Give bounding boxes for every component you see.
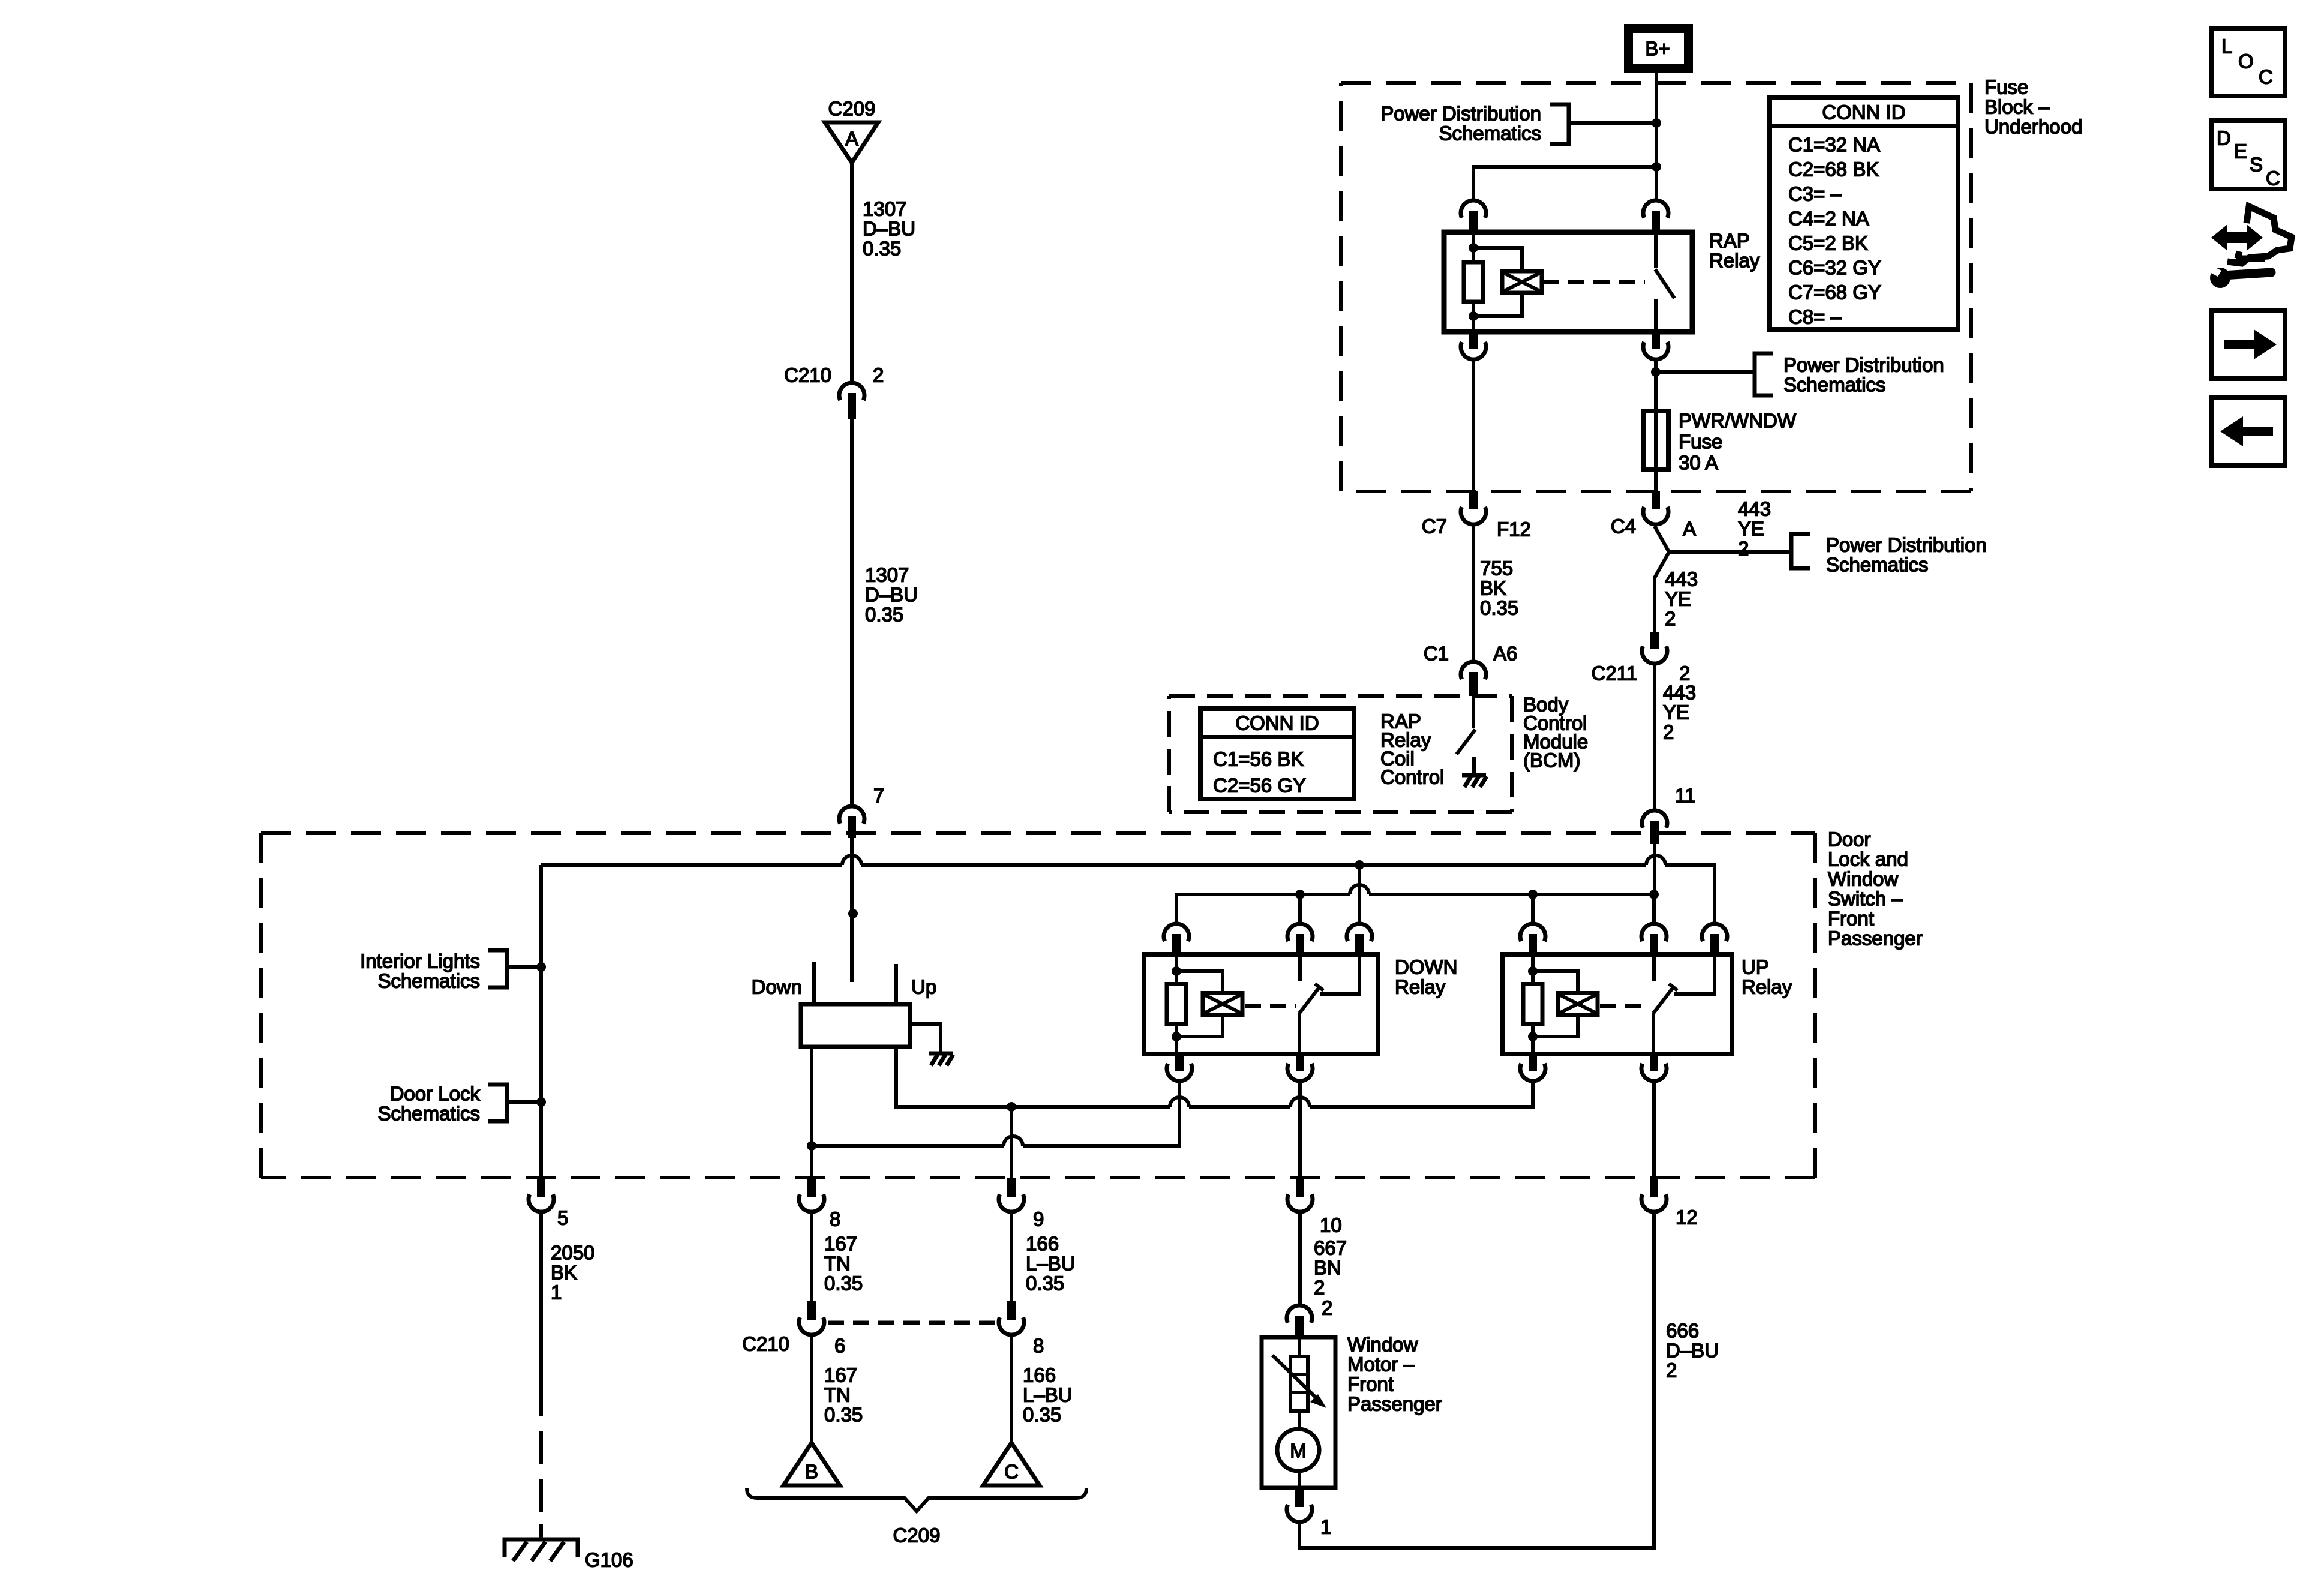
wire motor return to UP relay: [1299, 1214, 1654, 1548]
ground inside BCM: [1462, 757, 1487, 787]
connector pin 10: [1287, 1178, 1313, 1212]
svg-text:D–BU: D–BU: [865, 584, 918, 606]
svg-text:A: A: [1683, 518, 1696, 540]
svg-text:Lock and: Lock and: [1828, 848, 1908, 870]
junction node to power distribution: [1651, 367, 1661, 377]
svg-text:0.35: 0.35: [1480, 597, 1518, 619]
connector pin into RAP relay switch: [1643, 200, 1668, 233]
DOWN relay common top pin: [1287, 924, 1313, 957]
svg-text:Down: Down: [752, 976, 802, 998]
DOWN relay switch: [1299, 957, 1359, 1054]
svg-text:0.35: 0.35: [824, 1404, 863, 1426]
junction sub-bus to DOWN relay common: [1295, 890, 1305, 899]
label Window Motor Front Passenger: [1347, 1334, 1442, 1415]
wire C4 branch to power distribution: [1655, 526, 1791, 552]
svg-text:Window: Window: [1347, 1334, 1418, 1356]
svg-text:C210: C210: [784, 364, 831, 386]
CONN ID table (BCM): [1200, 709, 1354, 799]
svg-text:1: 1: [1320, 1516, 1331, 1538]
svg-text:D–BU: D–BU: [863, 218, 915, 240]
svg-text:Relay: Relay: [1742, 976, 1792, 998]
ground tab of rocker switch: [910, 1024, 953, 1065]
connector C210 pin 8: [999, 1301, 1024, 1335]
connector C7 pin F12: [1461, 491, 1486, 524]
bracket to Power Distribution Schematics (top): [1550, 104, 1656, 144]
connector C211 pin 2: [1642, 632, 1667, 664]
wire label 2050 BK 1: [551, 1242, 594, 1304]
svg-text:L–BU: L–BU: [1023, 1384, 1073, 1406]
wire sub-bus to DOWN relay common pin: [1298, 894, 1302, 922]
svg-text:Block –: Block –: [1984, 96, 2050, 118]
bracket to Interior Lights Schematics: [488, 950, 541, 987]
svg-text:BK: BK: [551, 1262, 577, 1284]
svg-text:5: 5: [557, 1207, 568, 1229]
svg-text:10: 10: [1320, 1214, 1342, 1236]
connector pin out of RAP switch: [1643, 331, 1668, 359]
svg-text:C2=68 BK: C2=68 BK: [1788, 158, 1879, 181]
svg-text:166: 166: [1023, 1364, 1056, 1386]
svg-text:Fuse: Fuse: [1984, 76, 2028, 98]
bracket to Door Lock Schematics: [488, 1085, 541, 1121]
wire pin 5 to ground (dashed): [539, 1214, 543, 1524]
svg-text:2: 2: [1314, 1277, 1325, 1299]
svg-text:755: 755: [1480, 557, 1513, 580]
svg-text:Schematics: Schematics: [1439, 122, 1541, 145]
wire label 443 YE 2 (upper): [1738, 498, 1771, 560]
splice node on pin 7 wire: [848, 909, 858, 918]
power terminal B+: [1629, 29, 1689, 69]
svg-text:YE: YE: [1663, 701, 1689, 724]
wire B+ feed down: [1655, 123, 1658, 167]
brace C209: [747, 1488, 1086, 1547]
svg-text:BN: BN: [1314, 1257, 1341, 1279]
svg-text:C4=2 NA: C4=2 NA: [1788, 208, 1869, 230]
svg-text:8: 8: [830, 1208, 840, 1230]
svg-text:TN: TN: [824, 1253, 851, 1275]
svg-text:Interior Lights: Interior Lights: [360, 950, 480, 972]
DOWN relay box: [1144, 954, 1378, 1054]
svg-text:CONN ID: CONN ID: [1822, 101, 1905, 124]
wire label 167 TN 0.35 (lower): [824, 1364, 863, 1426]
svg-text:443: 443: [1663, 682, 1696, 704]
BCM driver switch (RAP relay coil control): [1457, 696, 1475, 754]
icon DESC box: [2211, 121, 2285, 190]
svg-text:Front: Front: [1828, 908, 1874, 930]
junction Down leg to DOWN relay coil: [807, 1141, 816, 1151]
connector pin 1 motor return: [1287, 1488, 1312, 1522]
bracket to Power Distribution Schematics (mid): [1656, 353, 1773, 395]
svg-text:C5=2 BK: C5=2 BK: [1788, 232, 1868, 254]
label Power Distribution Schematics (mid): [1783, 354, 1944, 396]
svg-text:12: 12: [1676, 1206, 1698, 1229]
svg-text:Fuse: Fuse: [1679, 431, 1722, 453]
svg-text:C1=56 BK: C1=56 BK: [1213, 748, 1304, 770]
label RAP Relay: [1709, 230, 1760, 272]
connector C1 pin A6: [1461, 662, 1486, 696]
wire pin 9 to C210: [1010, 1214, 1013, 1301]
svg-text:S: S: [2250, 154, 2263, 176]
svg-text:F12: F12: [1497, 518, 1531, 541]
icon back arrow: [2211, 397, 2285, 466]
svg-text:D–BU: D–BU: [1666, 1340, 1719, 1362]
DOWN relay coil top pin: [1164, 924, 1189, 957]
wire pin 10 to motor connector: [1298, 1214, 1302, 1304]
svg-text:RAP: RAP: [1709, 230, 1750, 252]
RAP relay box: [1444, 232, 1692, 332]
wire pin 11 into switch: [1653, 844, 1656, 894]
svg-text:Switch –: Switch –: [1828, 888, 1903, 910]
svg-text:Schematics: Schematics: [1826, 554, 1929, 576]
svg-text:C4: C4: [1611, 515, 1636, 538]
wire label 755 BK 0.35: [1480, 557, 1518, 619]
label UP Relay: [1742, 956, 1792, 998]
svg-text:C6=32 GY: C6=32 GY: [1788, 257, 1881, 279]
connector pin 11 door switch: [1642, 810, 1667, 844]
label Door Lock and Window Switch Front Passenger: [1828, 828, 1923, 950]
svg-text:Window: Window: [1828, 868, 1899, 890]
svg-text:9: 9: [1033, 1208, 1044, 1230]
wire label 167 TN 0.35 (upper): [824, 1233, 863, 1295]
RAP relay switch: [1655, 232, 1674, 332]
breaker arrow: [1272, 1355, 1326, 1408]
wire label 166 L-BU 0.35 (lower): [1023, 1364, 1073, 1426]
label Power Distribution Schematics (right): [1826, 534, 1987, 576]
label DOWN Relay: [1395, 956, 1457, 998]
icon schematic navigation glyph: [2206, 206, 2292, 288]
wire branch left to RAP relay coil: [1473, 167, 1656, 199]
UP relay box: [1502, 954, 1732, 1054]
svg-text:6: 6: [834, 1335, 845, 1357]
left feed wire inside switch: [539, 865, 543, 1178]
svg-text:0.35: 0.35: [1023, 1404, 1061, 1426]
icon forward arrow: [2211, 311, 2285, 379]
UP relay common top pin: [1641, 924, 1667, 957]
svg-text:G106: G106: [585, 1549, 633, 1571]
svg-text:Power Distribution: Power Distribution: [1380, 103, 1541, 125]
svg-text:UP: UP: [1742, 956, 1769, 978]
wire C211 to door switch: [1653, 665, 1656, 809]
wire RAP coil output down to C7: [1472, 359, 1475, 491]
wire DOWN relay coil return: [812, 1083, 1179, 1146]
connector C210 pin 6: [799, 1301, 824, 1335]
svg-text:Up: Up: [911, 976, 936, 998]
svg-text:Power Distribution: Power Distribution: [1826, 534, 1987, 556]
connector pin into RAP relay coil (fuse block cavity): [1461, 200, 1486, 233]
connector pin 8: [799, 1178, 824, 1212]
svg-text:Schematics: Schematics: [377, 970, 480, 992]
svg-text:Motor –: Motor –: [1347, 1353, 1415, 1376]
svg-text:B: B: [805, 1461, 818, 1483]
svg-text:O: O: [2238, 50, 2254, 73]
label PWR/WNDW Fuse 30 A: [1679, 410, 1797, 474]
svg-text:166: 166: [1026, 1233, 1059, 1255]
connector pin 12: [1641, 1178, 1667, 1212]
svg-text:2: 2: [1665, 608, 1676, 630]
junction sub-bus to UP relay coil: [1528, 890, 1538, 899]
svg-text:C209: C209: [893, 1524, 941, 1547]
svg-text:YE: YE: [1738, 518, 1764, 540]
label Body Control Module (BCM): [1523, 694, 1588, 772]
connector pin 7 door switch: [839, 806, 864, 838]
svg-text:Schematics: Schematics: [377, 1103, 480, 1125]
svg-text:167: 167: [824, 1233, 857, 1255]
wire RAP switch output down: [1654, 359, 1658, 372]
svg-text:E: E: [2234, 140, 2247, 163]
wire label 1307 D-BU 0.35 (upper): [863, 198, 915, 260]
motor circuit breaker: [1290, 1337, 1308, 1411]
svg-text:C210: C210: [742, 1333, 789, 1355]
svg-text:2050: 2050: [551, 1242, 594, 1264]
UP relay coil top pin: [1520, 924, 1545, 957]
wire label 443 YE 2 (mid): [1665, 568, 1698, 630]
label Power Distribution Schematics (top): [1380, 103, 1541, 145]
svg-text:1: 1: [551, 1281, 562, 1304]
svg-text:C2=56 GY: C2=56 GY: [1213, 775, 1306, 797]
door lock and window switch dashed box: [261, 831, 1815, 835]
svg-text:BK: BK: [1480, 577, 1506, 599]
svg-text:Relay: Relay: [1709, 250, 1760, 272]
coil sub-bus wire: [1176, 885, 1654, 922]
svg-text:M: M: [1290, 1440, 1307, 1462]
svg-text:C3= –: C3= –: [1788, 183, 1842, 205]
wire pin 8 to C210: [810, 1214, 813, 1301]
feed bus wire inside switch: [541, 855, 1715, 922]
fuse block dashed box: [1341, 81, 1971, 85]
svg-text:1307: 1307: [865, 564, 909, 586]
wire Down leg: [810, 1047, 813, 1178]
connector triangle C: [983, 1443, 1040, 1485]
DOWN relay coil with parallel resistor: [1167, 957, 1242, 1054]
svg-text:C209: C209: [828, 98, 876, 120]
DOWN relay output bottom pin: [1287, 1054, 1313, 1081]
connector pin 9: [999, 1178, 1024, 1212]
wire bus to DOWN relay contact pin: [1358, 865, 1361, 922]
svg-text:Relay: Relay: [1395, 976, 1446, 998]
junction sub-bus to UP relay common: [1649, 890, 1659, 899]
svg-text:A: A: [845, 128, 858, 150]
icon LOC box: [2211, 28, 2285, 96]
UP relay coil-to-switch dashed link: [1600, 1004, 1650, 1008]
wire C4 down to C211: [1655, 552, 1669, 632]
svg-text:C7=68 GY: C7=68 GY: [1788, 281, 1881, 304]
wire Up leg to relay line: [896, 1047, 1533, 1107]
UP relay output bottom pin: [1641, 1054, 1667, 1081]
wire C210-8 to triangle C: [1010, 1337, 1013, 1444]
svg-text:Power Distribution: Power Distribution: [1783, 354, 1944, 376]
svg-text:C1=32 NA: C1=32 NA: [1788, 134, 1880, 156]
svg-text:(BCM): (BCM): [1523, 749, 1580, 772]
window motor box: [1262, 1337, 1335, 1488]
junction node on B+ feed at bracket: [1652, 118, 1661, 128]
connector C4 pin A: [1643, 491, 1668, 524]
wire C210 to door switch: [850, 419, 854, 804]
wire label 1307 D-BU 0.35 (lower): [865, 564, 918, 626]
svg-text:Schematics: Schematics: [1783, 374, 1886, 396]
UP relay contact top pin: [1702, 924, 1727, 957]
junction bus to DOWN relay: [1355, 860, 1364, 870]
svg-text:DOWN: DOWN: [1395, 956, 1457, 978]
svg-text:Passenger: Passenger: [1347, 1393, 1442, 1415]
svg-text:Door Lock: Door Lock: [390, 1083, 481, 1105]
UP relay switch: [1653, 957, 1715, 1054]
body control module dashed box: [1169, 694, 1512, 698]
svg-text:CONN ID: CONN ID: [1235, 712, 1319, 734]
svg-text:2: 2: [1322, 1297, 1332, 1319]
svg-text:L: L: [2221, 35, 2232, 58]
svg-text:B+: B+: [1645, 38, 1670, 60]
bracket to Power Distribution Schematics (right): [1791, 534, 1810, 568]
label RAP Relay Coil Control: [1380, 710, 1444, 788]
svg-text:Passenger: Passenger: [1828, 927, 1923, 950]
svg-text:C: C: [2266, 167, 2280, 190]
svg-text:Control: Control: [1380, 766, 1444, 788]
RAP relay coil with parallel resistor: [1464, 233, 1542, 332]
DOWN relay contact top pin: [1347, 924, 1372, 957]
svg-text:C: C: [2259, 66, 2273, 88]
svg-text:167: 167: [824, 1364, 857, 1386]
connector triangle B: [783, 1443, 840, 1485]
svg-text:C: C: [1004, 1461, 1019, 1483]
wire B+ to fuse block: [1655, 73, 1658, 123]
connector pin 5: [529, 1178, 554, 1212]
svg-text:2: 2: [1666, 1359, 1677, 1382]
wire down to RAP relay switch: [1655, 167, 1658, 199]
wire label 667 BN 2: [1314, 1237, 1347, 1299]
wire label 666 D-BU 2: [1666, 1320, 1719, 1382]
ground G106: [505, 1524, 578, 1561]
svg-text:0.35: 0.35: [865, 604, 903, 626]
label Fuse Block Underhood: [1984, 76, 2082, 138]
DOWN relay coil-to-switch dashed link: [1245, 1004, 1296, 1008]
RAP relay coil-to-switch dashed link: [1543, 280, 1645, 284]
label Door Lock Schematics: [377, 1083, 480, 1125]
svg-text:C211: C211: [1592, 662, 1637, 685]
connector pin 2 window motor: [1287, 1305, 1312, 1337]
UP relay coil bottom pin: [1520, 1054, 1545, 1081]
connector triangle A (C209): [825, 122, 878, 163]
svg-text:1307: 1307: [863, 198, 906, 220]
svg-text:443: 443: [1665, 568, 1698, 590]
CONN ID table (fuse block): [1770, 98, 1958, 329]
svg-text:D: D: [2217, 127, 2231, 149]
svg-text:11: 11: [1675, 785, 1695, 807]
svg-text:0.35: 0.35: [824, 1272, 863, 1295]
wire UP relay output to pin 12: [1652, 1083, 1656, 1178]
junction Up line to pin 9: [1007, 1102, 1016, 1112]
wire sub-bus to UP relay coil pin: [1531, 894, 1535, 922]
junction to door lock: [536, 1097, 546, 1107]
dashed connector link C210: [828, 1321, 996, 1325]
wire pin 7 into switch: [850, 838, 854, 914]
svg-text:TN: TN: [824, 1384, 851, 1406]
label Interior Lights Schematics: [360, 950, 480, 992]
DOWN relay coil bottom pin: [1167, 1054, 1192, 1081]
svg-text:443: 443: [1738, 498, 1771, 520]
svg-text:7: 7: [873, 785, 884, 807]
svg-text:2: 2: [873, 364, 884, 386]
svg-text:0.35: 0.35: [1026, 1272, 1064, 1295]
wire C7 to BCM: [1472, 526, 1475, 660]
wire sub-bus to UP relay common pin: [1652, 894, 1656, 922]
fuse PWR/WNDW 30A: [1643, 372, 1668, 491]
wire DOWN relay output to pin 10: [1298, 1083, 1302, 1178]
svg-text:2: 2: [1663, 721, 1674, 743]
wire label 443 YE 2 (lower): [1663, 682, 1696, 743]
svg-text:666: 666: [1666, 1320, 1699, 1342]
wire pin 9 drop: [1010, 1107, 1013, 1178]
junction to interior lights: [536, 962, 546, 972]
junction node branch to RAP coil: [1652, 162, 1661, 172]
svg-text:C1: C1: [1424, 643, 1449, 665]
wire splice to switch common: [850, 914, 854, 982]
wire A to C210: [850, 163, 854, 381]
connector pin out of RAP coil: [1461, 331, 1486, 359]
svg-text:8: 8: [1033, 1335, 1044, 1357]
svg-text:Door: Door: [1828, 828, 1871, 851]
svg-text:PWR/WNDW: PWR/WNDW: [1679, 410, 1797, 432]
UP relay coil with parallel resistor: [1523, 957, 1598, 1054]
window rocker switch: [801, 962, 910, 1047]
wire label 166 L-BU 0.35 (upper): [1026, 1233, 1076, 1295]
svg-text:C8= –: C8= –: [1788, 306, 1842, 328]
connector C210 pin 2: [839, 383, 864, 419]
svg-text:30 A: 30 A: [1679, 452, 1718, 474]
svg-text:C7: C7: [1422, 515, 1447, 538]
svg-text:0.35: 0.35: [863, 238, 901, 260]
svg-text:YE: YE: [1665, 588, 1691, 610]
svg-text:L–BU: L–BU: [1026, 1253, 1076, 1275]
svg-text:Front: Front: [1347, 1373, 1394, 1395]
svg-text:A6: A6: [1493, 643, 1517, 665]
motor M: [1277, 1411, 1319, 1488]
wire C210-6 to triangle B: [810, 1337, 813, 1444]
svg-text:667: 667: [1314, 1237, 1347, 1259]
svg-text:Underhood: Underhood: [1984, 116, 2082, 138]
svg-text:2: 2: [1738, 538, 1749, 560]
